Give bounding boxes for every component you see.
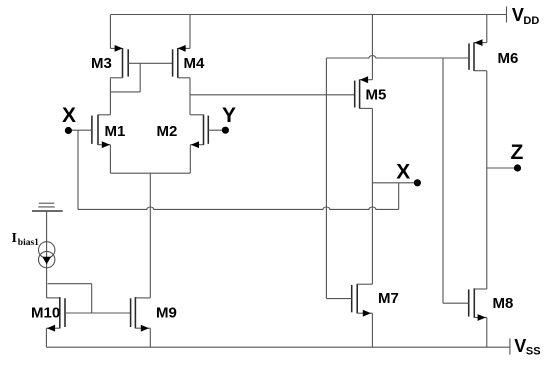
svg-text:M9: M9 — [156, 305, 177, 322]
svg-text:M1: M1 — [105, 123, 126, 140]
svg-text:X: X — [396, 161, 410, 184]
svg-text:V: V — [514, 336, 526, 356]
svg-text:M6: M6 — [498, 50, 519, 67]
svg-text:M2: M2 — [157, 123, 178, 140]
svg-text:DD: DD — [523, 15, 539, 27]
svg-text:Y: Y — [222, 104, 236, 127]
svg-text:M4: M4 — [184, 55, 205, 72]
svg-text:M10: M10 — [31, 305, 60, 322]
svg-text:M7: M7 — [378, 290, 399, 307]
svg-text:Z: Z — [511, 141, 524, 164]
svg-text:M3: M3 — [91, 55, 112, 72]
svg-text:I: I — [12, 231, 17, 246]
svg-text:M5: M5 — [366, 86, 387, 103]
svg-text:bias1: bias1 — [18, 238, 39, 248]
svg-text:V: V — [512, 5, 524, 25]
svg-text:X: X — [62, 104, 76, 127]
svg-text:M8: M8 — [493, 295, 514, 312]
svg-text:SS: SS — [526, 346, 541, 358]
